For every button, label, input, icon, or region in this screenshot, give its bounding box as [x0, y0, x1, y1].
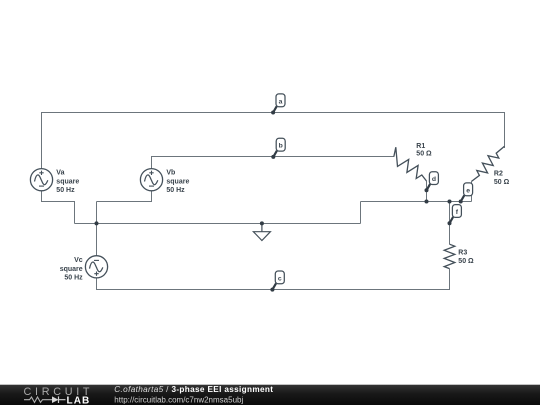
resistor R2	[472, 146, 505, 181]
wire net b	[152, 157, 394, 169]
ground	[253, 221, 270, 240]
svg-text:Vb: Vb	[166, 170, 175, 177]
wire below R1	[426, 181, 428, 202]
svg-text:square: square	[166, 178, 189, 185]
label R1	[416, 143, 432, 158]
resistor R3	[444, 244, 455, 268]
svg-text:50 Hz: 50 Hz	[56, 187, 75, 194]
svg-text:Vc: Vc	[74, 257, 83, 264]
svg-text:c: c	[278, 275, 282, 282]
wire bus	[361, 201, 472, 203]
svg-text:50 Hz: 50 Hz	[64, 275, 83, 282]
label Vc	[60, 257, 83, 281]
node c	[270, 271, 284, 292]
junction neutral	[95, 221, 99, 225]
svg-text:50 Hz: 50 Hz	[166, 187, 185, 194]
svg-text:C.ofatharta5 / 3-phase EEI ass: C.ofatharta5 / 3-phase EEI assignment	[114, 385, 273, 394]
junction d-bus	[425, 200, 429, 204]
svg-text:50 Ω: 50 Ω	[458, 258, 474, 265]
footer bar	[0, 385, 540, 405]
node d	[425, 172, 439, 193]
wire net a top	[42, 113, 505, 169]
wire Vb bottom	[97, 191, 152, 202]
svg-text:b: b	[279, 143, 283, 150]
voltage source Vc	[85, 256, 107, 278]
svg-text:50 Ω: 50 Ω	[494, 179, 510, 186]
label Va	[56, 170, 79, 194]
logo diode	[52, 396, 59, 403]
wire below R2	[471, 181, 473, 201]
label R2	[494, 171, 510, 187]
svg-text:square: square	[60, 266, 83, 273]
node a	[271, 94, 285, 115]
svg-text:R2: R2	[494, 171, 503, 178]
voltage source Vb	[140, 169, 162, 191]
node f	[448, 205, 462, 226]
svg-text:50 Ω: 50 Ω	[416, 151, 432, 158]
wire Vb to Vc	[96, 202, 98, 256]
svg-text:R3: R3	[458, 250, 467, 257]
svg-text:e: e	[466, 187, 470, 194]
wire step	[360, 202, 362, 224]
junction f-bus	[448, 200, 452, 204]
logo waveform	[24, 397, 52, 402]
svg-text:square: square	[56, 178, 79, 185]
svg-text:Va: Va	[56, 170, 64, 177]
wire net c bottom	[97, 269, 450, 290]
svg-text:R1: R1	[416, 143, 425, 150]
svg-text:d: d	[432, 176, 436, 183]
node e	[459, 183, 473, 204]
wire mid neutral	[75, 223, 361, 225]
wire f vertical	[449, 202, 451, 245]
node b	[271, 138, 285, 159]
svg-text:http://circuitlab.com/c7nw2nms: http://circuitlab.com/c7nw2nmsa5ubj	[114, 395, 243, 404]
label Vb	[166, 170, 189, 194]
label R3	[458, 250, 474, 266]
resistor R1	[394, 147, 427, 181]
svg-text:LAB: LAB	[67, 395, 91, 405]
voltage source Va	[30, 169, 52, 191]
svg-text:a: a	[279, 98, 283, 105]
wire Va bottom	[42, 191, 75, 224]
